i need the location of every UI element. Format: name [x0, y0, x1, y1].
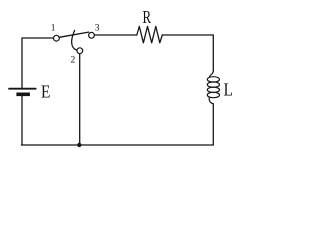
junction node dot [77, 143, 81, 147]
wire resistor to top-right corner [162, 35, 213, 71]
svg-text:L: L [224, 79, 233, 99]
svg-text:E: E [41, 82, 50, 102]
wire top-left segment with corner [22, 38, 53, 88]
wire terminal 3 to resistor [95, 34, 137, 36]
wire right lower segment [212, 104, 214, 145]
svg-text:3: 3 [95, 24, 100, 34]
svg-text:2: 2 [71, 55, 76, 65]
wire bottom segment [21, 144, 213, 146]
switch throw mark with motion arc to terminal 2 [72, 30, 77, 50]
resistor R zigzag [137, 26, 163, 42]
switch terminal 2 [77, 48, 83, 54]
wire left lower segment [21, 96, 23, 145]
switch terminal 1 [54, 35, 60, 41]
svg-text:R: R [143, 7, 152, 27]
svg-text:1: 1 [51, 24, 56, 34]
inductor L coil [207, 71, 219, 104]
battery E [9, 89, 36, 96]
switch terminal 3 [89, 32, 95, 38]
wire switch terminal 2 down to bottom [79, 54, 81, 145]
switch blade from 1 toward 3 [59, 32, 88, 37]
